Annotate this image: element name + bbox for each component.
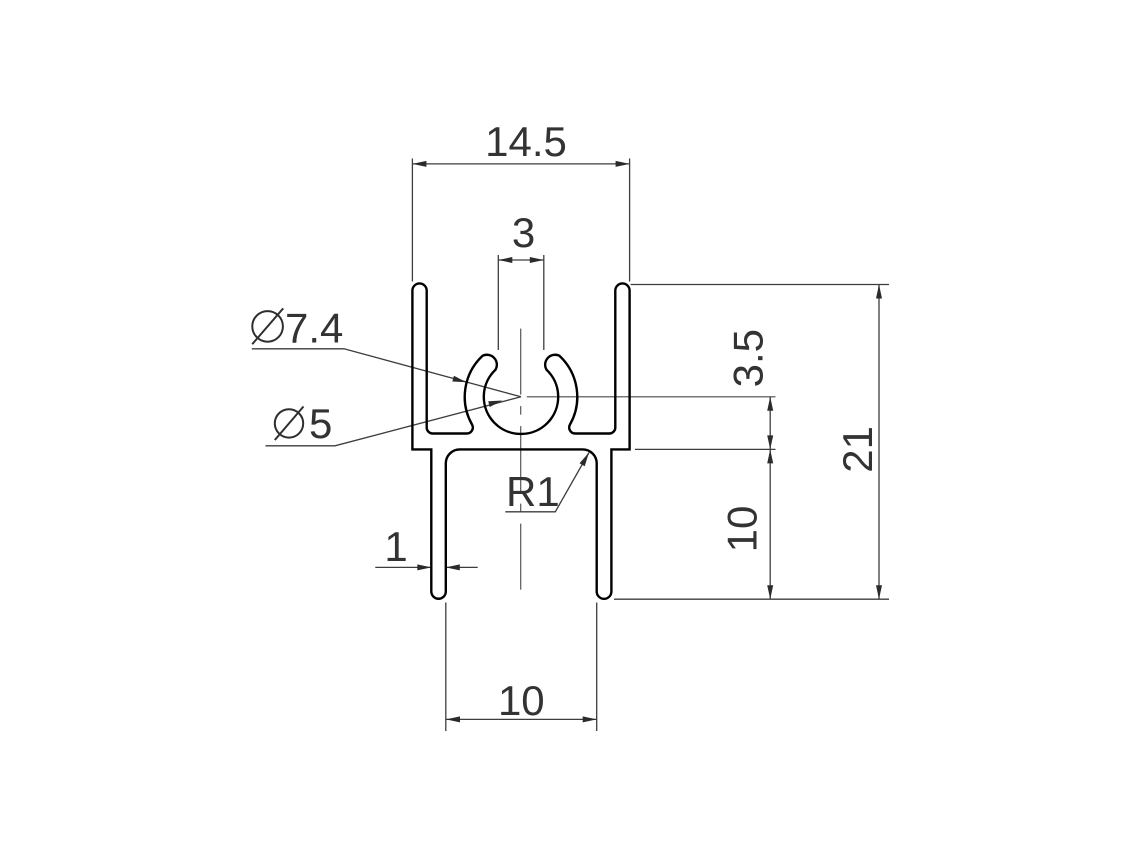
arrowheads <box>412 161 882 723</box>
dim 14.5 lines <box>412 159 629 282</box>
dim 1 lines <box>375 566 477 568</box>
horizontal centerline (axis through circle center, extension for 3.5 dim) <box>527 396 776 398</box>
dim 3.5 / 10 right vertical line <box>635 397 776 599</box>
svg-text:R1: R1 <box>506 468 560 515</box>
svg-text:3.5: 3.5 <box>725 329 772 387</box>
svg-text:21: 21 <box>834 426 881 473</box>
svg-text:7.4: 7.4 <box>285 305 343 352</box>
aluminium profile cross-section outline <box>412 283 629 598</box>
svg-text:10: 10 <box>719 506 766 553</box>
dim 10 bottom lines <box>446 603 597 732</box>
svg-text:10: 10 <box>498 677 545 724</box>
svg-text:1: 1 <box>384 523 407 570</box>
dim 3 lines <box>498 255 544 350</box>
diameter symbol 5 <box>275 407 304 441</box>
leader R1 <box>505 453 589 512</box>
dim 21 lines <box>614 285 889 600</box>
vertical centerline <box>520 329 522 598</box>
svg-text:14.5: 14.5 <box>485 118 567 165</box>
leader dia 7.4 <box>252 349 521 397</box>
diameter symbol 7.4 <box>252 308 283 344</box>
svg-text:3: 3 <box>512 209 535 256</box>
svg-text:5: 5 <box>309 400 332 447</box>
leader dia 5 <box>266 397 522 446</box>
